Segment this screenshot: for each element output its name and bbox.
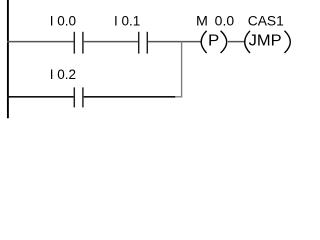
svg-text:0.0: 0.0 [215, 14, 234, 29]
svg-text:JMP: JMP [249, 33, 282, 50]
wire rung1 rail to I0.0 [7, 41, 74, 43]
svg-text:I 0.1: I 0.1 [114, 14, 140, 29]
wire coil P to coil JMP [228, 41, 245, 43]
left power rail [7, 0, 9, 118]
wire I0.0 to I0.1 [84, 41, 138, 43]
svg-text:P: P [208, 33, 219, 50]
wire rung2 rail to I0.2 [7, 96, 74, 98]
svg-text:CAS1: CAS1 [248, 14, 284, 29]
svg-text:I 0.0: I 0.0 [50, 14, 76, 29]
contact I0.2 [74, 87, 83, 107]
svg-text:I 0.2: I 0.2 [50, 67, 76, 82]
contact I0.1 [139, 32, 148, 54]
wire I0.2 to branch [84, 96, 176, 98]
coil CAS1 (JMP) [245, 31, 291, 53]
contact I0.0 [74, 32, 83, 54]
wire I0.1 to coil P [148, 41, 201, 43]
coil M0.0 (P) [201, 31, 227, 53]
branch wire vertical with elbow [175, 42, 182, 97]
svg-text:M: M [196, 14, 208, 29]
